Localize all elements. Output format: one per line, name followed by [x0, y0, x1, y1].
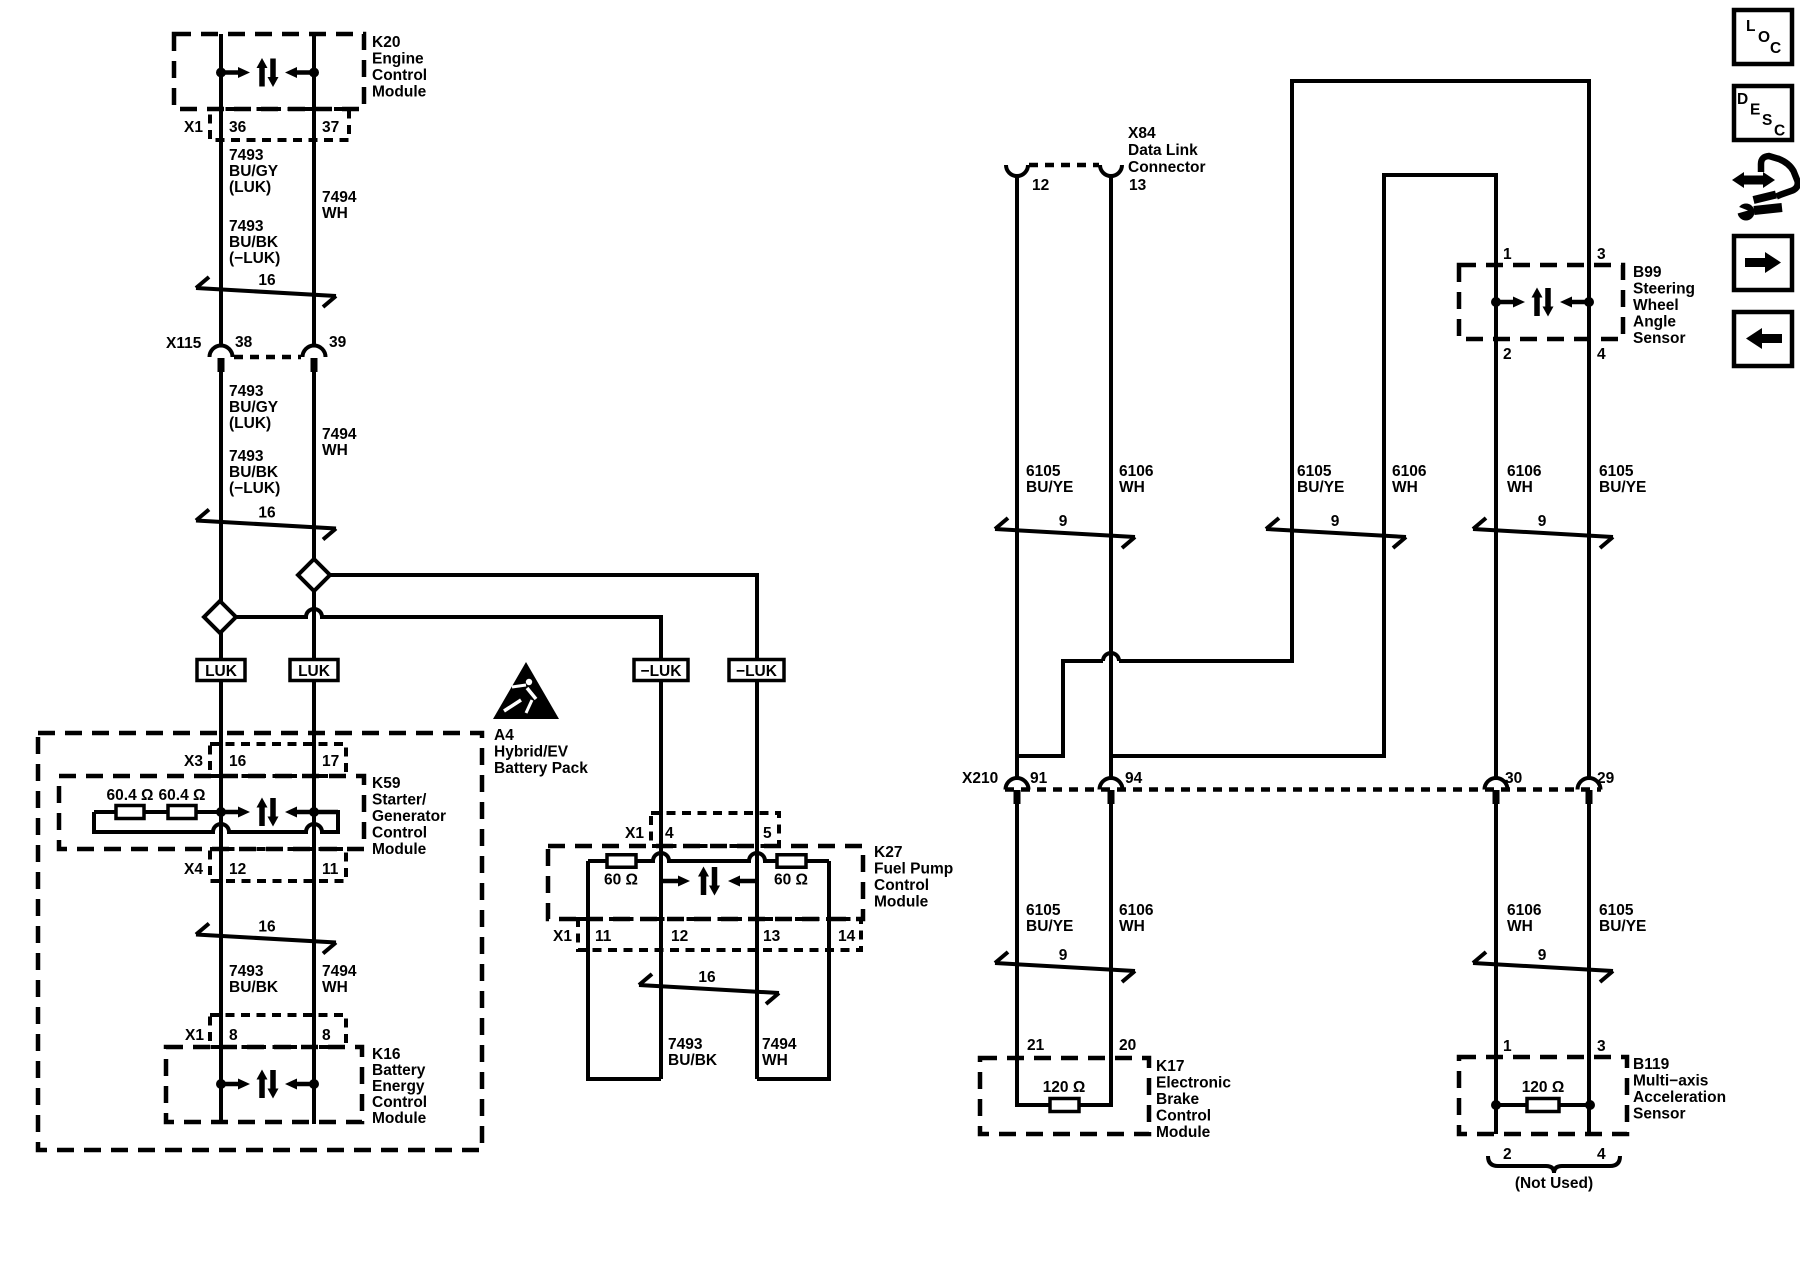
K27 outer wire pin 14 with bottom U to pin 13 [757, 861, 829, 1079]
wire label 6105 BU/YE (B99 pair) [1599, 463, 1646, 496]
svg-text:O: O [1758, 29, 1770, 46]
svg-text:38: 38 [235, 334, 253, 351]
wire label 6105 BU/YE (lower left pair) [1026, 902, 1073, 935]
svg-text:11: 11 [595, 928, 612, 945]
svg-text:Module: Module [874, 894, 929, 911]
wire 6105 BU/YE (X210-91 to K17-21) [1017, 804, 1050, 1105]
svg-text:12: 12 [229, 861, 246, 878]
svg-text:A4: A4 [494, 727, 514, 744]
wire 6105 BU/YE (X210-91 branch to B99-3) with hop over 6106 [1017, 661, 1103, 756]
icon double arrow with connector outline and wrench [1732, 156, 1798, 221]
svg-text:2: 2 [1503, 346, 1512, 363]
wire label 7494 WH (A4 zone) [322, 963, 357, 996]
svg-text:7494: 7494 [322, 426, 357, 443]
svg-text:Brake: Brake [1156, 1091, 1199, 1108]
svg-text:Module: Module [1156, 1124, 1211, 1141]
svg-text:X1: X1 [625, 825, 644, 842]
svg-text:60.4 Ω: 60.4 Ω [159, 787, 206, 804]
K59 label [372, 775, 446, 858]
svg-text:WH: WH [1119, 918, 1145, 935]
svg-text:91: 91 [1030, 770, 1048, 787]
svg-text:X1: X1 [184, 119, 203, 136]
net label box -LUK (right) [729, 660, 784, 681]
wire gauge marker 16 [639, 969, 779, 1004]
svg-text:Engine: Engine [372, 51, 424, 68]
icon box LOC [1734, 10, 1792, 64]
wire 6105 BU/YE (X84-12 to X210-91) [1015, 176, 1019, 779]
resistor 120 ohm (K17) [1043, 1079, 1086, 1112]
svg-text:X115: X115 [166, 335, 202, 352]
svg-text:WH: WH [1119, 479, 1145, 496]
svg-text:4: 4 [1597, 346, 1606, 363]
svg-text:Control: Control [1156, 1108, 1211, 1125]
wire label 7493 BU/GY (LUK) [229, 147, 279, 196]
svg-text:1: 1 [1503, 1038, 1512, 1055]
svg-text:BU/GY: BU/GY [229, 399, 279, 416]
warning triangle A4 Hybrid/EV Battery Pack [493, 662, 559, 719]
svg-text:K16: K16 [372, 1046, 401, 1063]
svg-text:7493: 7493 [229, 147, 264, 164]
K17 pin numbers 21 20 [1027, 1037, 1136, 1054]
wire from splice S1 to -LUK (7494 WH branch) [330, 575, 757, 660]
svg-text:6106: 6106 [1507, 463, 1542, 480]
svg-text:7494: 7494 [762, 1036, 797, 1053]
svg-text:16: 16 [258, 505, 276, 522]
svg-text:12: 12 [1032, 177, 1049, 194]
svg-text:LUK: LUK [205, 663, 238, 680]
svg-text:7493: 7493 [668, 1036, 703, 1053]
connector pin row X3 pins 16 17 (K59) [184, 744, 346, 776]
svg-text:Multi−axis: Multi−axis [1633, 1073, 1708, 1090]
svg-text:5: 5 [763, 825, 772, 842]
svg-text:Battery Pack: Battery Pack [494, 760, 588, 777]
svg-text:4: 4 [1597, 1146, 1606, 1163]
svg-text:16: 16 [258, 919, 276, 936]
wire 6106 WH (X210-94 branch to B99-1) [1111, 175, 1496, 756]
wire 6105 BU/YE through B99 to X210-29 [1587, 265, 1591, 779]
svg-text:6105: 6105 [1026, 902, 1061, 919]
brace (Not Used) for pins 2 and 4 [1488, 1156, 1620, 1192]
net label box LUK (left) [197, 660, 245, 681]
svg-text:60.4 Ω: 60.4 Ω [107, 787, 154, 804]
svg-text:E: E [1750, 102, 1760, 119]
splice diamond S1 on wire 7494 [298, 559, 330, 591]
module B119 Multi-axis Acceleration Sensor box [1459, 1057, 1627, 1134]
K16 internal serial data arrows [216, 1070, 319, 1099]
svg-text:6106: 6106 [1507, 902, 1542, 919]
svg-text:WH: WH [1507, 479, 1533, 496]
svg-text:Fuel Pump: Fuel Pump [874, 861, 953, 878]
svg-text:Steering: Steering [1633, 281, 1695, 298]
svg-text:21: 21 [1027, 1037, 1045, 1054]
svg-text:Electronic: Electronic [1156, 1075, 1231, 1092]
svg-text:X210: X210 [962, 770, 998, 787]
svg-text:D: D [1737, 91, 1748, 108]
wire 6106 WH (X210-94 to K17-20) [1079, 804, 1111, 1105]
svg-text:9: 9 [1059, 513, 1068, 530]
inline connector X115 pins 38 39 [166, 334, 347, 372]
svg-text:X4: X4 [184, 861, 203, 878]
svg-text:6106: 6106 [1119, 902, 1154, 919]
net label box -LUK (left) [634, 660, 688, 681]
svg-text:60 Ω: 60 Ω [604, 872, 638, 889]
svg-text:Battery: Battery [372, 1062, 426, 1079]
svg-text:LUK: LUK [298, 663, 331, 680]
svg-text:Module: Module [372, 84, 427, 101]
wire gauge marker 9 [1266, 513, 1406, 548]
svg-text:9: 9 [1538, 947, 1547, 964]
splice diamond S2 on wire 7493 [204, 601, 236, 633]
svg-text:6105: 6105 [1599, 463, 1634, 480]
wire from splice S2 to -LUK (7493 branch) with hop over 7494 [236, 609, 661, 660]
svg-text:3: 3 [1597, 246, 1606, 263]
wire label 7493 BU/BK (A4 zone) [229, 963, 279, 996]
svg-text:9: 9 [1059, 947, 1068, 964]
svg-text:7494: 7494 [322, 963, 357, 980]
svg-text:(−LUK): (−LUK) [229, 250, 280, 267]
svg-text:7493: 7493 [229, 963, 264, 980]
svg-text:C: C [1770, 40, 1781, 57]
svg-text:Control: Control [372, 825, 427, 842]
K27 label [874, 844, 953, 911]
svg-text:B99: B99 [1633, 264, 1662, 281]
K27 internal serial data arrows [661, 867, 757, 896]
B119 bridge wire with junction dots [1491, 1100, 1595, 1110]
connector pin row X1 pins 4 5 (K27) [625, 813, 779, 846]
svg-text:6106: 6106 [1392, 463, 1427, 480]
K16 label [372, 1046, 427, 1127]
svg-text:BU/YE: BU/YE [1297, 479, 1344, 496]
svg-text:WH: WH [322, 442, 348, 459]
svg-text:WH: WH [1507, 918, 1533, 935]
wire label 6106 WH (middle pair) [1392, 463, 1427, 496]
wire gauge marker 16 [196, 272, 336, 307]
svg-text:14: 14 [838, 928, 856, 945]
module K27 Fuel Pump Control Module box [548, 846, 863, 919]
svg-text:60 Ω: 60 Ω [774, 872, 808, 889]
svg-text:(−LUK): (−LUK) [229, 480, 280, 497]
wire label 6106 WH (lower left pair) [1119, 902, 1154, 935]
svg-text:3: 3 [1597, 1038, 1606, 1055]
wire 7493 BU/GY left vertical (X115 to K16) [219, 372, 223, 1124]
svg-text:Module: Module [372, 841, 427, 858]
svg-text:16: 16 [698, 969, 716, 986]
svg-text:C: C [1774, 123, 1785, 140]
svg-text:8: 8 [322, 1027, 331, 1044]
svg-text:X3: X3 [184, 753, 203, 770]
B99 pin numbers 1 3 2 4 [1503, 246, 1606, 363]
svg-text:6105: 6105 [1599, 902, 1634, 919]
module K59 Starter/Generator Control Module box [59, 776, 364, 849]
inline connector X210 pins 91 94 30 29 [962, 770, 1615, 804]
wire gauge marker 9 [1473, 947, 1613, 982]
K59 internal serial data arrows [216, 798, 338, 827]
svg-text:13: 13 [1129, 177, 1147, 194]
svg-text:BU/YE: BU/YE [1026, 479, 1073, 496]
svg-text:(LUK): (LUK) [229, 179, 271, 196]
connector pin row X1 pins 36 37 (K20) [184, 109, 349, 140]
svg-text:BU/BK: BU/BK [668, 1052, 718, 1069]
svg-text:Hybrid/EV: Hybrid/EV [494, 744, 569, 761]
svg-text:6105: 6105 [1297, 463, 1332, 480]
wire label 7493 BU/BK (K27) [668, 1036, 718, 1069]
connector X84 Data Link Connector pins 12 13 [1006, 125, 1206, 194]
svg-text:WH: WH [1392, 479, 1418, 496]
svg-text:Starter/: Starter/ [372, 792, 427, 809]
svg-text:Acceleration: Acceleration [1633, 1089, 1726, 1106]
wire gauge marker 9 [995, 947, 1135, 982]
svg-text:9: 9 [1538, 513, 1547, 530]
K27 terminating resistor chain wire with hops [588, 853, 829, 861]
svg-text:X84: X84 [1128, 125, 1156, 142]
svg-text:39: 39 [329, 334, 347, 351]
svg-text:BU/BK: BU/BK [229, 234, 279, 251]
svg-text:BU/YE: BU/YE [1599, 479, 1646, 496]
wire label 6105 BU/YE (lower right pair) [1599, 902, 1646, 935]
K59 return loop wire with hops over 7493/7494 [94, 812, 338, 832]
svg-text:X1: X1 [185, 1027, 204, 1044]
svg-text:7494: 7494 [322, 189, 357, 206]
resistor 60 ohm (left) [604, 855, 638, 889]
svg-text:16: 16 [258, 272, 276, 289]
wire label 6106 WH (lower right pair) [1507, 902, 1542, 935]
svg-text:WH: WH [322, 979, 348, 996]
K20 internal serial data arrows [216, 58, 319, 87]
wire label 6106 WH (upper left pair) [1119, 463, 1154, 496]
svg-text:16: 16 [229, 753, 247, 770]
connector pin row X1 pins 8 8 (K16) [185, 1015, 346, 1047]
resistor 120 ohm (B119) [1522, 1079, 1565, 1112]
svg-text:BU/GY: BU/GY [229, 163, 279, 180]
svg-text:6106: 6106 [1119, 463, 1154, 480]
wire -LUK right to K27 pin 5/13 and bottom U [755, 680, 759, 1079]
wire 6105 BU/YE (X210-29 to B119-3) [1587, 804, 1591, 1134]
resistor 60 ohm (right) [774, 855, 808, 889]
svg-text:BU/YE: BU/YE [1599, 918, 1646, 935]
module K17 Electronic Brake Control Module box [980, 1058, 1149, 1134]
svg-text:13: 13 [763, 928, 781, 945]
wire -LUK left to K27 pin 4/12 and bottom U [659, 680, 663, 1079]
wire gauge marker 9 [995, 513, 1135, 548]
svg-text:Data Link: Data Link [1128, 142, 1198, 159]
icon box arrow left [1734, 312, 1792, 366]
svg-text:7493: 7493 [229, 383, 264, 400]
svg-text:17: 17 [322, 753, 339, 770]
B119 pin numbers 1 3 2 4 [1503, 1038, 1606, 1163]
module K16 Battery Energy Control Module box [166, 1047, 362, 1122]
wire 7494 WH right vertical (X115 to K16) [312, 372, 316, 1124]
svg-text:WH: WH [322, 205, 348, 222]
wire 6106 WH (X210-30 to B119-1) [1494, 804, 1498, 1134]
wire label 7494 WH [322, 189, 357, 222]
svg-text:Control: Control [874, 877, 929, 894]
svg-text:1: 1 [1503, 246, 1512, 263]
svg-text:36: 36 [229, 119, 247, 136]
wire 6106 WH through B99 to X210-30 [1494, 265, 1498, 779]
wire label 6105 BU/YE (middle pair) [1297, 463, 1344, 496]
wire label 7493 BU/GY (LUK) below X115 [229, 383, 279, 432]
connector pin row X1 pins 11 12 13 14 (K27) [553, 919, 861, 950]
svg-text:Control: Control [372, 1094, 427, 1111]
icon box DESC [1734, 86, 1792, 140]
wire gauge marker 16 [196, 919, 336, 954]
svg-text:K17: K17 [1156, 1058, 1184, 1075]
svg-text:BU/BK: BU/BK [229, 979, 279, 996]
K27 outer wire pin 11 with bottom U to pin 12 [588, 861, 661, 1079]
svg-text:120 Ω: 120 Ω [1522, 1079, 1565, 1096]
svg-text:(Not Used): (Not Used) [1515, 1175, 1593, 1192]
svg-text:BU/BK: BU/BK [229, 464, 279, 481]
svg-text:6105: 6105 [1026, 463, 1061, 480]
svg-text:K20: K20 [372, 34, 400, 51]
svg-text:Energy: Energy [372, 1078, 425, 1095]
wire gauge marker 16 [196, 505, 336, 540]
svg-text:WH: WH [762, 1052, 788, 1069]
svg-text:20: 20 [1119, 1037, 1136, 1054]
B99 label [1633, 264, 1695, 347]
svg-text:9: 9 [1331, 513, 1340, 530]
K20 label [372, 34, 427, 101]
svg-text:8: 8 [229, 1027, 238, 1044]
icon box arrow right [1734, 236, 1792, 290]
svg-text:2: 2 [1503, 1146, 1512, 1163]
svg-text:37: 37 [322, 119, 339, 136]
wire 6106 WH (X84-13 to X210-94) [1109, 176, 1113, 779]
A4 label [494, 727, 588, 777]
wire label 6106 WH (B99 pair) [1507, 463, 1542, 496]
wire label 6105 BU/YE (upper left pair) [1026, 463, 1073, 496]
svg-text:11: 11 [322, 861, 339, 878]
svg-text:Connector: Connector [1128, 159, 1206, 176]
svg-text:Control: Control [372, 67, 427, 84]
A4 Hybrid/EV Battery Pack outline box [38, 733, 482, 1150]
svg-text:7493: 7493 [229, 448, 264, 465]
svg-text:(LUK): (LUK) [229, 415, 271, 432]
svg-text:B119: B119 [1633, 1056, 1670, 1073]
module K20 Engine Control Module box [174, 34, 364, 109]
svg-text:BU/YE: BU/YE [1026, 918, 1073, 935]
wire label 7494 WH below X115 [322, 426, 357, 459]
wire label 7493 BU/BK (−LUK) below X115 [229, 448, 280, 497]
net label box LUK (right) [290, 660, 338, 681]
wire 7493 BU/GY left vertical (K20 pin36 to X115) [219, 34, 223, 346]
wire gauge marker 9 [1473, 513, 1613, 548]
K17 label [1156, 1058, 1231, 1141]
resistor 60.4 ohm (2) [159, 787, 206, 819]
svg-text:30: 30 [1505, 770, 1522, 787]
svg-text:Angle: Angle [1633, 314, 1676, 331]
module B99 Steering Wheel Angle Sensor box [1459, 265, 1623, 339]
svg-text:94: 94 [1125, 770, 1143, 787]
wire 7494 WH right vertical (K20 pin37 to X115) [312, 34, 316, 346]
resistor 60.4 ohm (1) [107, 787, 154, 819]
B119 label [1633, 1056, 1726, 1123]
svg-text:Sensor: Sensor [1633, 1106, 1686, 1123]
svg-text:K59: K59 [372, 775, 401, 792]
svg-text:7493: 7493 [229, 218, 264, 235]
svg-text:4: 4 [665, 825, 674, 842]
svg-text:12: 12 [671, 928, 688, 945]
svg-text:Module: Module [372, 1110, 427, 1127]
svg-text:S: S [1762, 112, 1772, 129]
svg-text:29: 29 [1597, 770, 1615, 787]
svg-text:L: L [1746, 18, 1755, 35]
B99 internal serial data arrows [1491, 288, 1594, 317]
wire label 7494 WH (K27) [762, 1036, 797, 1069]
svg-text:Generator: Generator [372, 808, 446, 825]
K59 terminating resistor chain wire [94, 810, 221, 814]
wire label 7493 BU/BK (−LUK) [229, 218, 280, 267]
connector pin row X4 pins 12 11 (K59) [184, 849, 346, 881]
svg-text:Wheel: Wheel [1633, 297, 1679, 314]
svg-text:−LUK: −LUK [736, 663, 778, 680]
svg-text:−LUK: −LUK [641, 663, 683, 680]
svg-text:Sensor: Sensor [1633, 330, 1686, 347]
svg-text:X1: X1 [553, 928, 572, 945]
svg-text:K27: K27 [874, 844, 902, 861]
svg-text:120 Ω: 120 Ω [1043, 1079, 1086, 1096]
